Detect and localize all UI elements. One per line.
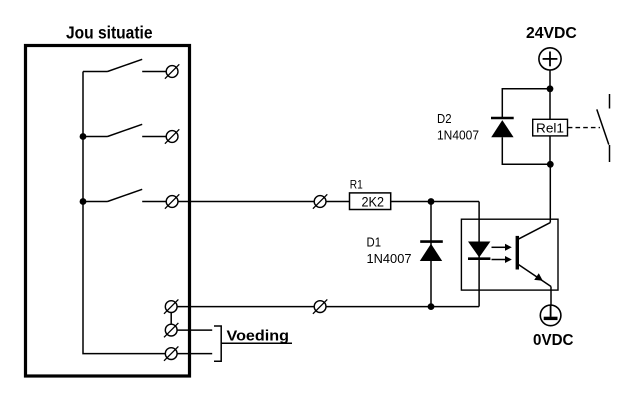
resistor R1 [350, 193, 391, 210]
enclosure box "Jou situatie" [26, 46, 190, 377]
wire bus vertical inside box [83, 72, 165, 354]
ground symbol 0VDC [540, 305, 561, 326]
wire R1 to LED branch [391, 201, 479, 203]
svg-text:24VDC: 24VDC [526, 25, 577, 42]
wire bottom terminal to LED branch [326, 306, 479, 308]
wire D1 branch vertical [430, 202, 432, 307]
svg-text:2K2: 2K2 [362, 194, 385, 210]
terminal circle T1 (bottom row) [164, 299, 178, 313]
supply bracket (Voeding) [214, 326, 221, 361]
underline wire of Voeding [221, 342, 292, 344]
junction node R1/D1 [428, 198, 435, 205]
diode D2 [491, 118, 514, 137]
dashed link Rel1 to contact [568, 127, 600, 129]
LED inside optocoupler [468, 242, 490, 259]
phototransistor Q1 [516, 223, 551, 287]
terminal circle T2 [164, 323, 178, 337]
wire D2 bottom branch [502, 137, 550, 164]
wire collector to relay junction [549, 164, 551, 222]
terminal circle on bottom wire [313, 299, 327, 313]
switch S2 [83, 124, 166, 136]
svg-text:D1: D1 [367, 236, 382, 250]
terminal circle S2 [165, 129, 179, 143]
wire T2 to supply bracket [177, 329, 212, 331]
wire switch S3 to line terminal [178, 201, 314, 203]
svg-text:1N4007: 1N4007 [367, 251, 412, 266]
terminal circle on top wire [313, 194, 327, 208]
terminal circle S1 [165, 64, 179, 78]
wire T1 to bottom terminal [177, 306, 314, 308]
svg-text:R1: R1 [350, 178, 363, 192]
relay contact top terminal [609, 94, 611, 109]
diode D1 [420, 242, 443, 261]
svg-text:D2: D2 [437, 112, 452, 126]
relay coil Rel1 [533, 119, 568, 136]
relay contact blade [597, 109, 609, 144]
svg-text:0VDC: 0VDC [533, 332, 574, 349]
terminal circle S3 [165, 194, 179, 208]
wire 24VDC to Rel1 [549, 70, 551, 119]
switch S1 [83, 59, 166, 71]
junction node 24VDC/D2 [547, 85, 554, 92]
svg-text:Voeding: Voeding [227, 327, 290, 344]
wire T3 to supply bracket [177, 353, 212, 355]
wire D2 top branch [502, 89, 550, 118]
optocoupler box U1 [461, 219, 558, 290]
junction node bus/switch S3 [80, 198, 87, 205]
junction node Rel1/D2/collector [547, 161, 554, 168]
junction node D1/bottom wire [428, 303, 435, 310]
switch S3 [83, 189, 166, 201]
svg-text:1N4007: 1N4007 [437, 129, 479, 143]
svg-text:Rel1: Rel1 [536, 120, 564, 135]
relay contact bottom terminal [609, 145, 611, 162]
wire emitter to ground [550, 287, 552, 306]
light arrow 1 [492, 244, 512, 251]
junction node bus/switch S2 [80, 133, 87, 140]
wire LED branch vertical [478, 202, 480, 307]
wire terminal to R1 [326, 201, 350, 203]
supply symbol +24VDC [539, 48, 561, 70]
terminal circle T3 [164, 346, 178, 360]
svg-text:Jou situatie: Jou situatie [66, 23, 153, 43]
wire Rel1 to collector junction [549, 136, 551, 164]
wire link T1-T2 [170, 313, 172, 325]
light arrow 2 [492, 256, 512, 263]
